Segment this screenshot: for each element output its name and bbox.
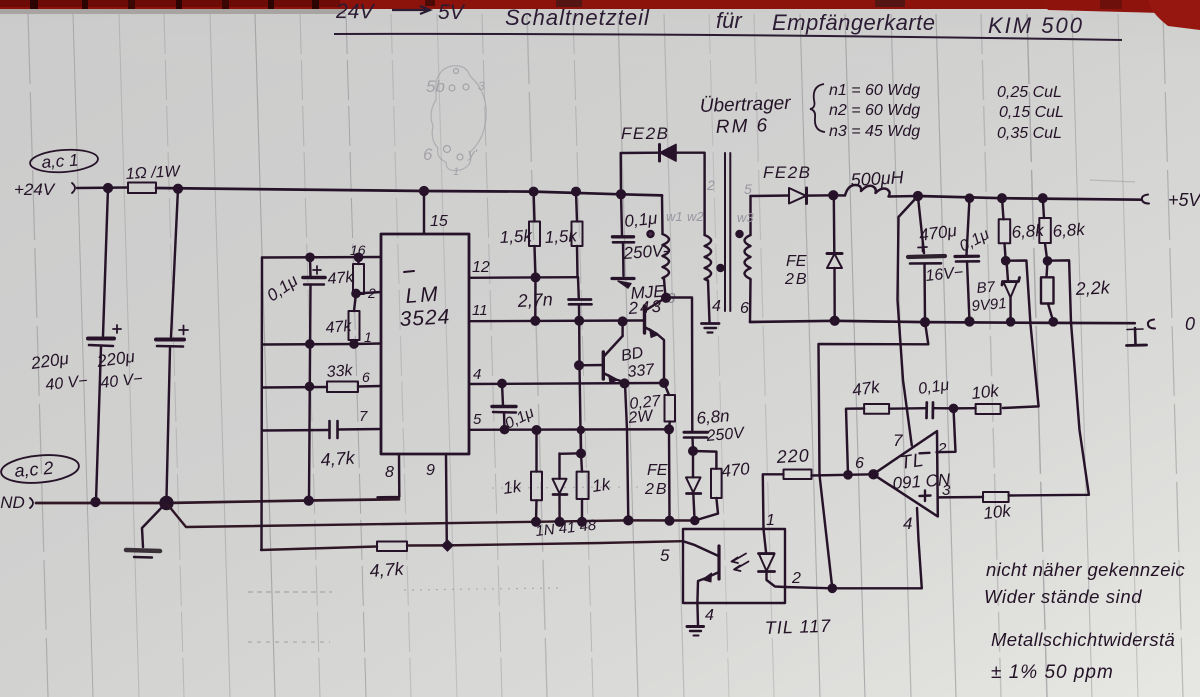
note nicht naeher gekennzeichnete Widerstaende sind <box>984 559 1185 607</box>
svg-text:2: 2 <box>937 440 947 457</box>
svg-text:470: 470 <box>720 459 751 481</box>
resistor 1,5k left <box>499 188 540 281</box>
wire pin12 to pin11 link <box>532 277 540 324</box>
svg-text:2: 2 <box>367 285 376 301</box>
opto led <box>759 529 786 587</box>
svg-text:1Ω /1W: 1Ω /1W <box>125 163 182 183</box>
diode FE2B snubber <box>686 451 701 524</box>
svg-text:4: 4 <box>473 366 481 383</box>
transistor Q1 emitter resistor 0,27 2W <box>627 383 675 433</box>
opto phototransistor <box>683 541 719 603</box>
svg-text:2: 2 <box>791 570 801 587</box>
capacitor 0,1u output <box>955 195 992 326</box>
svg-text:500μH: 500μH <box>850 167 905 190</box>
pin 8 stub <box>378 454 400 497</box>
svg-text:FE2B: FE2B <box>763 163 812 182</box>
svg-text:6,8k: 6,8k <box>1011 221 1046 242</box>
+24V input terminal <box>14 180 75 199</box>
pin 12 rail <box>469 259 578 278</box>
svg-text:4: 4 <box>705 607 714 624</box>
svg-text:220: 220 <box>775 445 810 467</box>
wire op-amp pin6 input <box>812 455 878 478</box>
resistor 6,8k right <box>1039 194 1087 261</box>
wire +24V feed <box>77 186 128 189</box>
node dot 1k-diode top on pin5 <box>578 427 584 433</box>
diode ZD B7 9V1 zener <box>971 257 1020 325</box>
svg-text:6: 6 <box>855 455 864 472</box>
svg-text:3524: 3524 <box>399 305 451 331</box>
ground w2 <box>702 324 720 333</box>
svg-text:5b: 5b <box>426 77 445 96</box>
svg-text:6: 6 <box>423 145 433 164</box>
terminal +5V output <box>1142 190 1200 210</box>
svg-text:1: 1 <box>364 329 372 345</box>
svg-text:1: 1 <box>453 166 459 178</box>
svg-text:11: 11 <box>472 302 488 319</box>
svg-text:FE: FE <box>647 462 668 479</box>
svg-text:6: 6 <box>740 300 749 317</box>
resistor 47k upper <box>327 254 364 294</box>
pin 4 rail <box>469 366 664 384</box>
GND input terminal <box>0 493 33 512</box>
pencil sketch blob <box>423 66 486 178</box>
faint paper dashes <box>248 180 1135 642</box>
svg-text:1,5k: 1,5k <box>544 226 579 247</box>
capacitor 0,1u pin5 <box>492 380 537 433</box>
capacitor 470u 16V <box>908 196 964 326</box>
wire feedback 47k line <box>846 409 864 475</box>
wire zener ref down to 10k <box>1003 261 1039 409</box>
svg-text:6,8k: 6,8k <box>1052 220 1087 241</box>
svg-text:0,35 CuL: 0,35 CuL <box>997 125 1062 142</box>
svg-text:337: 337 <box>627 361 656 381</box>
pin 15 stub <box>424 191 448 234</box>
svg-text:RM 6: RM 6 <box>715 115 769 138</box>
svg-text:a,c 2: a,c 2 <box>14 458 55 481</box>
svg-text:4: 4 <box>903 514 912 533</box>
wire GND rail <box>36 499 399 503</box>
svg-text:24V: 24V <box>335 0 376 23</box>
svg-text:0,25 CuL: 0,25 CuL <box>997 84 1062 101</box>
svg-text:w1: w1 <box>666 209 683 224</box>
wire diode-1k top link <box>560 430 582 454</box>
pin 1 rail <box>262 329 381 348</box>
wire +5V rail <box>918 196 1141 200</box>
svg-text:GND: GND <box>0 493 25 512</box>
svg-text:10k: 10k <box>970 381 1001 403</box>
ground stub under 0,1u <box>612 279 634 289</box>
svg-text:2W: 2W <box>627 407 656 427</box>
svg-text:a,c 1: a,c 1 <box>41 150 79 172</box>
svg-text:47k: 47k <box>325 318 353 337</box>
svg-text:1: 1 <box>766 512 775 529</box>
svg-text:4,7k: 4,7k <box>320 448 356 470</box>
transformer T1 winding w3 <box>737 181 755 322</box>
diode FE2B secondary rectifier <box>763 163 833 204</box>
resistor 10k lower <box>982 492 1013 523</box>
transformer T1 winding w1 <box>648 195 683 297</box>
opto pin 5 entry <box>660 546 670 565</box>
svg-text:12: 12 <box>472 259 490 276</box>
diode FE2B primary clamp <box>621 124 705 235</box>
node dot pin9 to 4,7k bus <box>447 544 449 546</box>
svg-text:2,7n: 2,7n <box>516 289 553 311</box>
node dot primary snubber tap <box>617 190 625 198</box>
wire left loop vertical <box>260 258 263 551</box>
wire pin11 node to 1k-diode node <box>579 321 581 454</box>
svg-text:9: 9 <box>426 462 435 479</box>
resistor 220 <box>763 445 812 529</box>
svg-text:250V: 250V <box>705 425 746 445</box>
resistor 10k upper <box>954 381 1002 414</box>
svg-text:4,7k: 4,7k <box>369 559 405 581</box>
svg-text:7: 7 <box>893 431 903 450</box>
note Metallschichtwiderstaende 1% 50ppm <box>991 629 1175 683</box>
wire op-amp pin2 <box>937 408 956 452</box>
svg-text:33k: 33k <box>326 362 354 381</box>
svg-text:8: 8 <box>385 464 394 481</box>
wire soft-start bus to opto pin5 <box>261 541 682 550</box>
wire +24V rail <box>156 188 662 195</box>
svg-text:+24V: +24V <box>14 180 56 199</box>
terminal 0V output <box>1127 314 1196 346</box>
wire 2,2k node down to 10k pin3 <box>1009 260 1089 495</box>
svg-text:47k: 47k <box>851 377 882 400</box>
wire collector snubber branch <box>666 298 692 432</box>
capacitor C1 220u 40V <box>29 188 121 501</box>
svg-text:Schaltnetzteil: Schaltnetzteil <box>505 5 650 30</box>
title text 24V to 5V Schaltnetzteil fuer Empfaengerkarte KIM 500 <box>335 0 1084 38</box>
svg-text:Metallschichtwiderstä: Metallschichtwiderstä <box>991 629 1175 650</box>
capacitor 4,7k(CT) pin7 <box>262 408 381 470</box>
svg-text:yʹ: yʹ <box>467 146 478 161</box>
node dot bus x628 <box>624 517 632 525</box>
svg-text:± 1% 50 ppm: ± 1% 50 ppm <box>991 662 1114 683</box>
node a,c2 <box>0 452 80 486</box>
node dot GND main junction <box>161 497 173 509</box>
pin 11 rail <box>469 302 644 321</box>
svg-text:243: 243 <box>627 297 664 318</box>
svg-text:2B: 2B <box>784 271 809 288</box>
capacitor 0,1u at pin16 <box>263 266 325 305</box>
resistor 1k left <box>502 426 542 525</box>
svg-text:3: 3 <box>478 79 485 93</box>
resistor 6,8k left <box>998 194 1046 260</box>
svg-text:5V: 5V <box>438 1 466 24</box>
node dot +5 filter tap <box>914 192 922 200</box>
wire 0V to op-amp ground net <box>819 322 929 592</box>
svg-text:9V91: 9V91 <box>971 295 1007 315</box>
transformer T1 winding w2 <box>687 177 724 322</box>
svg-text:2B: 2B <box>644 481 669 498</box>
resistor 1R 1W <box>125 163 182 193</box>
node dot C1 bottom <box>92 498 100 506</box>
resistor 1k right <box>577 450 613 526</box>
node dot junction C2 top <box>174 185 182 193</box>
svg-text:6,8n: 6,8n <box>696 406 731 428</box>
capacitor 6,8n 250V <box>684 406 746 455</box>
svg-text:B7: B7 <box>976 278 996 297</box>
label FE 2B snubber diode <box>644 462 669 498</box>
wire secondary top <box>751 194 790 197</box>
transistor Q2 BD337 <box>575 318 656 388</box>
title underline <box>334 34 1122 40</box>
opto pin2 wire <box>785 570 832 588</box>
ground main symbol <box>126 503 166 558</box>
node dot pin15 tap <box>420 187 428 195</box>
transistor Q1 MJE243 <box>627 282 676 387</box>
inductor 500uH <box>833 167 918 196</box>
svg-text:TIL 117: TIL 117 <box>764 616 831 638</box>
svg-text:FE2B: FE2B <box>621 124 670 143</box>
capacitor 0,1u 250V primary <box>613 194 670 276</box>
pin 16 rail <box>262 242 381 258</box>
svg-text:1,5k: 1,5k <box>499 226 534 247</box>
op-amp U2 TL091 <box>873 431 951 533</box>
svg-text:w2: w2 <box>687 209 704 224</box>
svg-text:47k: 47k <box>327 269 355 288</box>
pin 2 stub <box>352 285 381 301</box>
wire op-amp pin4 down <box>832 508 922 588</box>
opto pin4 wire and ground <box>687 603 714 636</box>
resistor 2,2k <box>1041 257 1111 325</box>
node a,c1 <box>29 148 98 175</box>
resistor 33k pin6 <box>262 362 381 392</box>
svg-text:10k: 10k <box>982 501 1013 523</box>
svg-text:+5V: +5V <box>1168 190 1200 210</box>
svg-text:2: 2 <box>706 177 715 193</box>
wire shutdown bus lower <box>168 505 695 527</box>
svg-text:0,15 CuL: 0,15 CuL <box>999 104 1064 121</box>
svg-text:nicht näher gekennzeic: nicht näher gekennzeic <box>986 559 1185 580</box>
wire +5 feed to op-amp pin7 <box>898 196 918 446</box>
svg-text:2,2k: 2,2k <box>1074 277 1111 299</box>
svg-text:4: 4 <box>712 298 721 315</box>
pin 9 stub <box>426 454 447 545</box>
diode FE2B freewheel <box>784 195 842 324</box>
svg-text:5: 5 <box>744 181 752 197</box>
svg-text:KIM 500: KIM 500 <box>988 13 1084 38</box>
capacitor C2 220u 40V <box>95 189 188 502</box>
svg-text:w3: w3 <box>737 210 754 225</box>
svg-text:Empfängerkarte: Empfängerkarte <box>772 10 936 35</box>
svg-text:6: 6 <box>362 369 370 385</box>
optocoupler U3 TIL117 box <box>683 529 785 603</box>
wire BD337 emitter down to bus <box>625 383 628 520</box>
node dots inner vertical <box>306 254 313 261</box>
svg-text:Wider stände sind: Wider stände sind <box>984 586 1142 607</box>
wire 0V rail <box>750 321 1135 323</box>
opto light arrows <box>732 554 749 572</box>
transformer T1 core <box>725 153 730 311</box>
wire op-amp pin3 <box>939 496 983 499</box>
svg-text:n3 = 45 Wdg: n3 = 45 Wdg <box>829 123 920 140</box>
svg-text:0,1μ: 0,1μ <box>623 209 658 231</box>
capacitor 2,7n <box>516 277 591 324</box>
node dot choke input <box>829 191 837 199</box>
wire 0,27 bottom to bus <box>668 429 671 520</box>
pin 5 rail <box>469 411 669 430</box>
node dot junction C1 top <box>104 184 112 192</box>
svg-text:LM: LM <box>405 283 442 308</box>
diode D 1N4148 <box>535 454 598 540</box>
resistor 47k feedback <box>851 377 926 414</box>
capacitor 0,1u feedback <box>917 377 957 418</box>
svg-text:7: 7 <box>359 408 368 425</box>
svg-text:n2 = 60 Wdg: n2 = 60 Wdg <box>829 102 920 119</box>
resistor 1,5k right <box>544 188 582 277</box>
resistor 47k lower <box>325 294 360 345</box>
svg-text:0: 0 <box>1185 314 1195 334</box>
IC U1 LM3524 body <box>381 234 469 454</box>
svg-text:n1 = 60 Wdg: n1 = 60 Wdg <box>829 82 920 99</box>
svg-text:15: 15 <box>430 213 448 230</box>
wire inner vertical <box>309 257 311 501</box>
svg-text:5: 5 <box>473 411 482 428</box>
svg-text:für: für <box>716 8 743 33</box>
resistor 4,7k soft <box>369 542 407 581</box>
transformer winding annotation Uebertrager RM6 <box>699 82 1063 142</box>
resistor 470 <box>693 451 751 521</box>
svg-text:Übertrager: Übertrager <box>699 93 791 117</box>
svg-text:5: 5 <box>660 546 670 565</box>
svg-text:FE: FE <box>786 253 807 270</box>
